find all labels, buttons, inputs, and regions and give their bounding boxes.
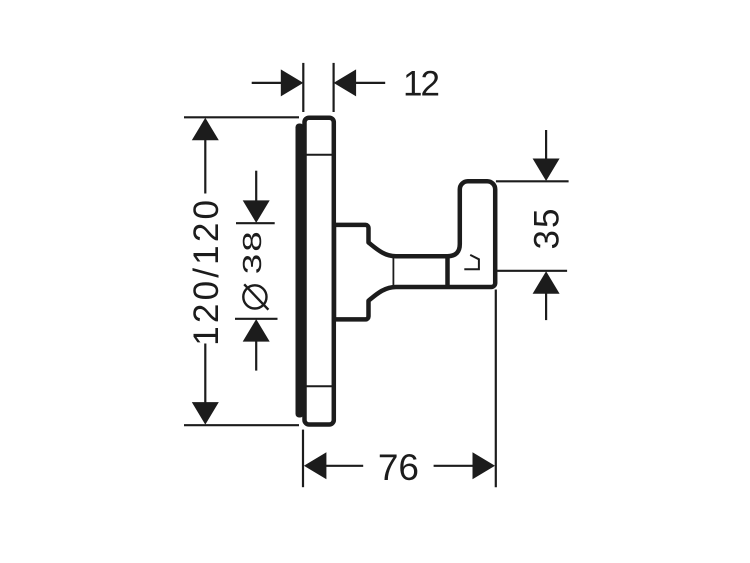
dimension 76: left extension line — [302, 430, 304, 488]
dimension Ø38: top arrow with leader — [255, 171, 257, 201]
dimension 12: left leader and arrow — [252, 82, 282, 84]
corner mark inside hook — [464, 255, 479, 269]
dimension 120/120: bottom extension line — [184, 424, 299, 426]
dimension 35: top extension line — [496, 180, 569, 182]
stem/hook junction line — [445, 255, 450, 289]
dimension 35: bottom arrow with leader — [533, 271, 560, 294]
dimension 35: label (rotated) — [528, 207, 567, 250]
dimension Ø38: bottom arrow with leader — [243, 319, 270, 342]
dimension Ø38: top extension line — [236, 222, 275, 224]
dimension 120/120: dimension line with arrows — [192, 118, 219, 141]
dimension 35: bottom extension line — [497, 270, 567, 272]
svg-text:38: 38 — [238, 229, 267, 274]
dimension Ø38: bottom extension line — [235, 318, 278, 320]
dimension 76: right extension line — [495, 290, 497, 488]
hook body with cone flange and stem (outline) — [334, 181, 495, 319]
svg-text:12: 12 — [403, 64, 438, 103]
svg-text:120/120: 120/120 — [187, 197, 226, 346]
wall gasket strip (dark bar behind plate left edge) — [296, 124, 304, 418]
plate bottom division line — [305, 385, 334, 387]
dimension 76: left arrow and leader — [304, 452, 327, 479]
svg-text:76: 76 — [378, 447, 419, 488]
wall plate (side profile) — [305, 118, 334, 425]
svg-text:35: 35 — [528, 207, 567, 250]
dimension 120/120: label (rotated) — [187, 197, 226, 346]
dimension Ø38: diameter symbol — [243, 285, 266, 308]
dimension 120/120: top extension line — [184, 116, 299, 118]
dimension 12: extension lines — [302, 63, 304, 112]
dimension Ø38: label (rotated) — [238, 229, 267, 274]
dimension 12: right leader and arrow — [356, 82, 386, 84]
dimension 76: right arrow and leader — [434, 465, 475, 467]
plate top division line — [305, 154, 334, 156]
dimension 35: top leader and arrow — [545, 130, 547, 159]
cone/stem junction line — [392, 256, 394, 287]
